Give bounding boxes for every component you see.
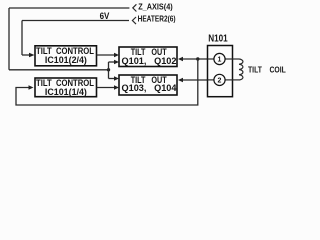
- label Z_AXIS(4): [138, 2, 173, 12]
- junction dot pin1 feedback: [196, 57, 199, 60]
- junction dot at branch: [107, 68, 110, 71]
- wire stub into box U4 input1: [109, 76, 120, 80]
- wire branch vertical: [108, 62, 110, 79]
- label TILT COIL: [248, 64, 286, 74]
- pin 2 circle: [208, 74, 233, 85]
- wire stub into box U3 input2: [109, 60, 120, 64]
- connector N101 body: [208, 46, 233, 97]
- wire pin2 net: connector to U4 with arrow: [178, 78, 208, 82]
- inductor L1 tilt coil: [233, 59, 243, 80]
- svg-text:N101: N101: [208, 33, 228, 45]
- wire U1 output to U3: [97, 53, 120, 57]
- connector arrow HEATER2: [132, 17, 136, 24]
- wire Z_AXIS left vertical: [8, 8, 10, 70]
- wire Z_AXIS return horizontal: [9, 69, 109, 71]
- wire stub into box U1 input: [22, 53, 35, 57]
- wire pin1 net: connector to U3 with arrow: [178, 57, 208, 61]
- pin 1 circle: [208, 53, 233, 64]
- label N101: [208, 33, 228, 45]
- svg-text:6V: 6V: [100, 11, 110, 21]
- svg-text:HEATER2(6): HEATER2(6): [138, 14, 176, 24]
- op-amp U2 TILT CONTROL IC101(1/4): [35, 78, 97, 97]
- label 6V: [100, 11, 110, 21]
- svg-text:1: 1: [218, 57, 222, 64]
- wire Z_AXIS top horizontal: [9, 7, 129, 9]
- wire feedback pin1 to U2 input: [16, 59, 198, 105]
- svg-text:IC101(2/4): IC101(2/4): [45, 55, 87, 65]
- svg-text:2: 2: [218, 78, 222, 85]
- svg-text:Q101, Q102: Q101, Q102: [122, 56, 177, 66]
- label HEATER2(6): [138, 14, 176, 24]
- svg-text:TILT COIL: TILT COIL: [248, 64, 286, 74]
- svg-text:Z_AXIS(4): Z_AXIS(4): [138, 2, 173, 12]
- op-amp U1 TILT CONTROL IC101(2/4): [35, 46, 97, 66]
- wire U2 output to U4: [97, 85, 120, 89]
- transistor block U3 TILT OUT Q101, Q102: [119, 47, 177, 67]
- connector arrow Z_AXIS: [133, 4, 137, 11]
- svg-text:IC101(1/4): IC101(1/4): [45, 87, 87, 97]
- wire HEATER2 horizontal: [22, 20, 129, 22]
- svg-text:Q103, Q104: Q103, Q104: [122, 83, 177, 93]
- wire HEATER2 vertical: [21, 21, 23, 56]
- transistor block U4 TILT OUT Q103, Q104: [119, 75, 177, 95]
